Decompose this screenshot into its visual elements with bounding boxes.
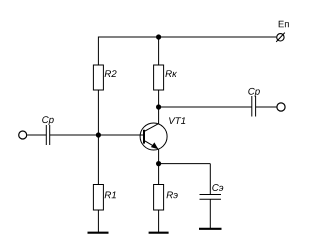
resistor R2 <box>93 65 103 90</box>
wire input right segment <box>50 134 144 136</box>
wire R1 ground segment <box>97 210 99 233</box>
wire output left segment <box>159 106 252 108</box>
resistor Rk <box>154 65 164 90</box>
node base junction <box>96 132 101 137</box>
wire collector segment <box>158 107 160 124</box>
wire Ce top segment <box>209 164 211 195</box>
wire top supply rail <box>98 36 276 38</box>
wire Re ground segment <box>158 210 160 233</box>
wire Re top segment <box>158 164 160 185</box>
resistor R1 <box>93 185 103 211</box>
transistor VT1 <box>140 123 167 150</box>
node top supply junction <box>156 34 161 39</box>
terminal input <box>19 131 27 139</box>
label Ce <box>212 184 223 191</box>
node collector junction <box>156 104 161 109</box>
label En <box>279 21 289 28</box>
wire R1 top segment <box>97 135 99 185</box>
ground under Ce <box>199 228 222 230</box>
label R2 <box>105 70 117 77</box>
node emitter junction <box>156 161 161 166</box>
capacitor Ce <box>200 195 222 200</box>
ground under Re <box>149 232 169 234</box>
wire output right segment <box>256 106 277 108</box>
wire R2 top segment <box>97 37 99 66</box>
capacitor Cp (input) <box>46 125 49 145</box>
wire Rk top segment <box>158 37 160 65</box>
terminal output <box>277 103 285 111</box>
resistor Re <box>154 185 164 211</box>
wire emitter segment <box>158 149 160 163</box>
wire Rk bottom segment <box>158 90 160 107</box>
label Re <box>167 192 178 199</box>
label VT1 <box>169 117 185 124</box>
wire input left segment <box>27 134 46 136</box>
ground under R1 <box>88 232 109 234</box>
label Cp output <box>248 88 260 97</box>
wire Ce ground segment <box>209 199 211 229</box>
label Rk <box>165 70 177 77</box>
wire emitter branch segment <box>159 163 211 165</box>
label R1 <box>105 192 116 199</box>
wire R2 bottom segment <box>97 90 99 135</box>
label Cp input <box>42 116 54 125</box>
terminal En power <box>276 33 285 42</box>
capacitor Cp (output) <box>252 96 256 117</box>
